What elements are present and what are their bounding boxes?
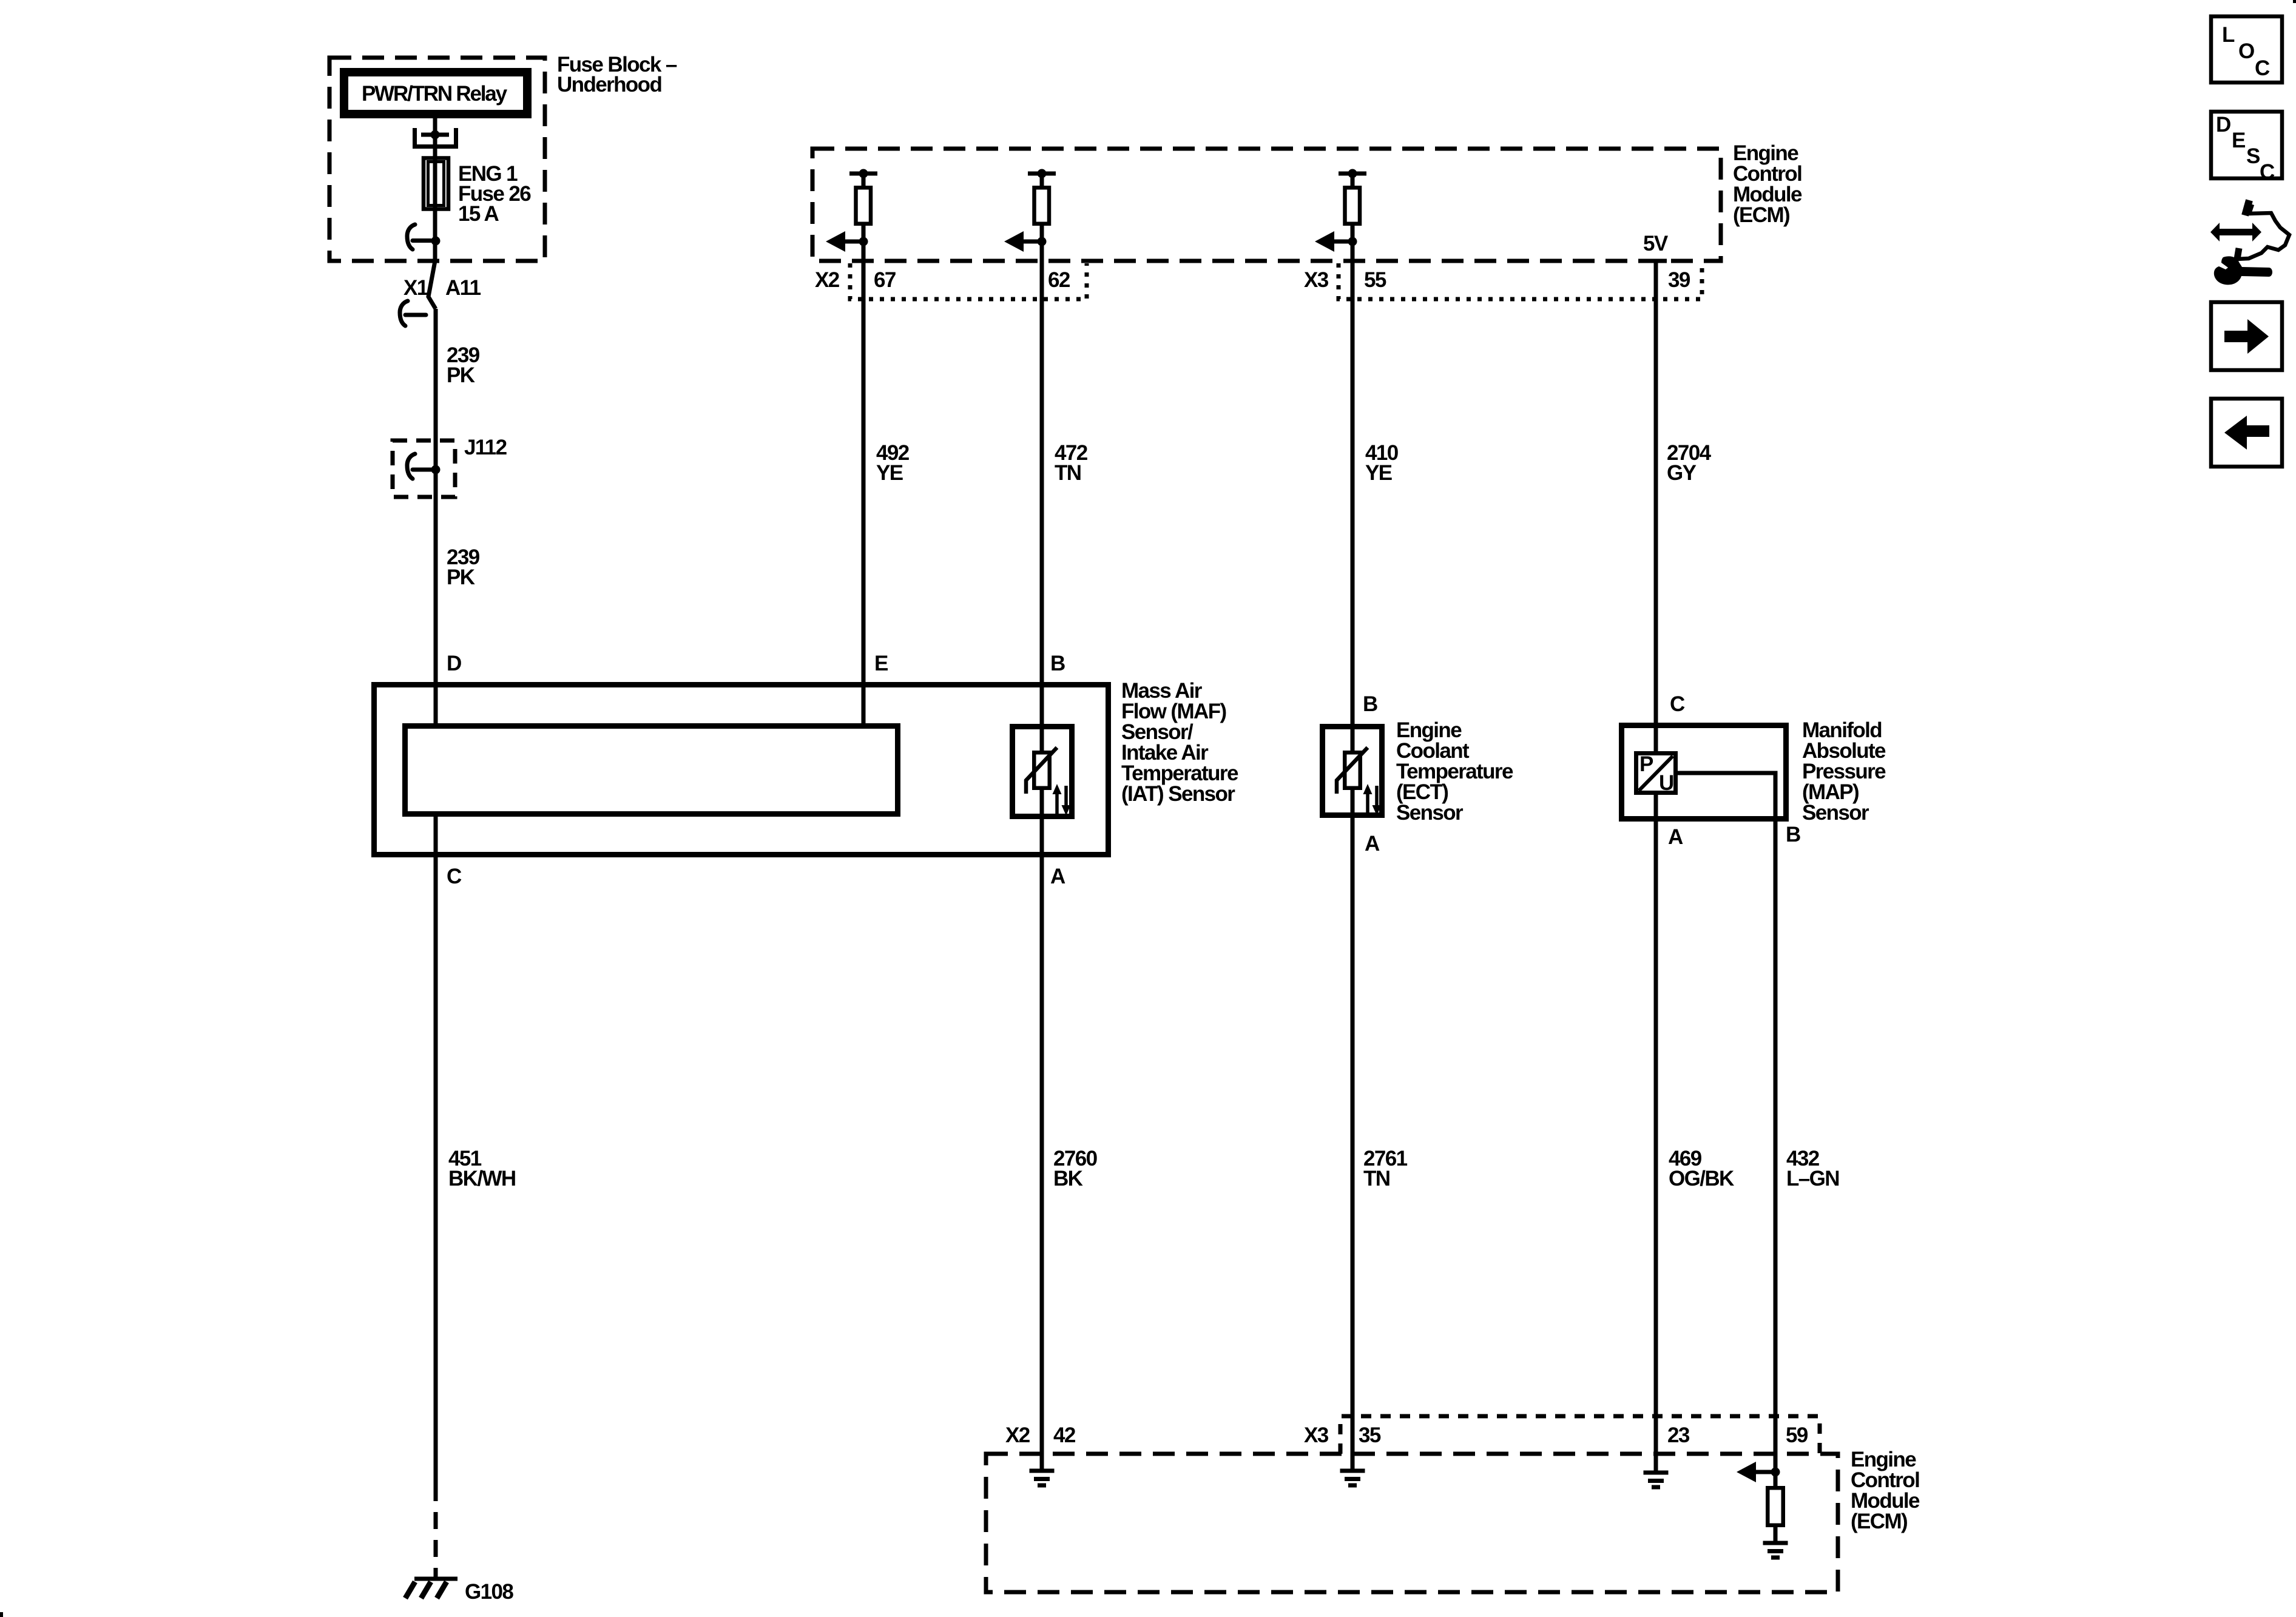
wire W4: 410 YE / 2761 TN from ECM 55 through ECT to ECM 35 bbox=[1351, 174, 1355, 1471]
svg-text:(IAT) Sensor: (IAT) Sensor bbox=[1121, 782, 1235, 806]
svg-text:67: 67 bbox=[874, 268, 896, 292]
svg-text:C: C bbox=[2260, 160, 2275, 184]
wire W1 kink through connector X1/A11 bbox=[428, 261, 436, 309]
svg-text:35: 35 bbox=[1359, 1423, 1381, 1447]
relay switch contact hook bbox=[407, 224, 431, 249]
svg-text:S: S bbox=[2246, 144, 2260, 168]
svg-text:A: A bbox=[1365, 832, 1380, 856]
MAP sensor box bbox=[1622, 726, 1786, 819]
icon DESC box bbox=[2211, 112, 2282, 184]
svg-text:B: B bbox=[1786, 823, 1800, 846]
wire W2: 492 YE from ECM 67 to MAF pin E bbox=[862, 174, 866, 723]
svg-text:23: 23 bbox=[1667, 1423, 1690, 1447]
svg-text:X3: X3 bbox=[1304, 1423, 1329, 1447]
svg-text:G108: G108 bbox=[465, 1580, 513, 1604]
fuse F26 (ENG 1, 15 A) bbox=[424, 158, 448, 209]
svg-text:BK: BK bbox=[1053, 1167, 1083, 1190]
svg-text:B: B bbox=[1050, 652, 1065, 675]
ground at ECM pin 23 bbox=[1644, 1473, 1669, 1487]
ground G108 chassis symbol bbox=[405, 1579, 458, 1598]
svg-text:O: O bbox=[2238, 39, 2255, 63]
wire W1: dashed continuation to G108 bbox=[434, 1512, 438, 1579]
ECM top dashed box bbox=[812, 149, 1721, 261]
wire W6: 432 L-GN from MAP pin B to ECM 59 bbox=[1678, 773, 1775, 1543]
connector X3 dotted box pins 55 39 bbox=[1339, 263, 1702, 299]
dash bar at 5V wire origin bbox=[1646, 259, 1667, 263]
svg-text:E: E bbox=[2232, 129, 2246, 152]
svg-text:E: E bbox=[874, 652, 888, 675]
ECM bottom dashed box bbox=[986, 1454, 1838, 1592]
svg-text:A: A bbox=[1668, 825, 1683, 849]
relay contact bracket bbox=[413, 128, 458, 148]
svg-text:A11: A11 bbox=[445, 276, 481, 300]
splice J112 junction dot bbox=[431, 465, 441, 474]
svg-text:62: 62 bbox=[1048, 268, 1070, 292]
svg-text:PK: PK bbox=[447, 565, 475, 589]
thermistor RT2 (ECT) bbox=[1337, 748, 1382, 815]
svg-text:YE: YE bbox=[876, 461, 903, 485]
svg-text:15 A: 15 A bbox=[458, 202, 499, 226]
thermistor RT1 (IAT) bbox=[1026, 748, 1071, 815]
svg-text:L: L bbox=[2222, 23, 2235, 47]
svg-text:Sensor: Sensor bbox=[1396, 801, 1464, 825]
resistor R (ECM internal at 59) bbox=[1768, 1488, 1783, 1525]
svg-text:PWR/TRN Relay: PWR/TRN Relay bbox=[362, 82, 508, 106]
svg-text:A: A bbox=[1050, 865, 1065, 888]
junction dot at pin 59 bbox=[1771, 1468, 1780, 1477]
svg-text:TN: TN bbox=[1363, 1167, 1389, 1190]
arrow at pin 59 bbox=[1737, 1462, 1775, 1482]
connector X3 dotted box pins 35 23 59 bbox=[1340, 1416, 1820, 1454]
svg-text:P: P bbox=[1639, 752, 1653, 776]
junction dot on relay output bbox=[431, 130, 440, 140]
svg-text:PK: PK bbox=[447, 363, 475, 387]
connector X1 terminal hook bbox=[400, 301, 426, 326]
IAT sensor box bbox=[1013, 727, 1072, 817]
MAP transducer P/U symbol bbox=[1636, 752, 1676, 795]
splice J112 dashed box bbox=[393, 441, 455, 497]
icon hand with double arrow and wrench bbox=[2210, 200, 2289, 285]
icon back arrow box bbox=[2211, 399, 2282, 467]
svg-text:TN: TN bbox=[1055, 461, 1081, 485]
page corner mark top right bbox=[2293, 0, 2296, 3]
svg-text:B: B bbox=[1363, 692, 1377, 716]
svg-text:OG/BK: OG/BK bbox=[1669, 1167, 1734, 1190]
junction dot at relay switch bbox=[431, 237, 441, 246]
svg-text:(ECM): (ECM) bbox=[1851, 1510, 1907, 1533]
svg-text:L–GN: L–GN bbox=[1786, 1167, 1839, 1190]
svg-text:X3: X3 bbox=[1304, 268, 1329, 292]
svg-text:GY: GY bbox=[1667, 461, 1697, 485]
svg-text:BK/WH: BK/WH bbox=[448, 1167, 516, 1190]
wire W1: relay output through fuse to X1/A11 bbox=[433, 118, 437, 261]
svg-text:J112: J112 bbox=[464, 436, 507, 459]
svg-text:YE: YE bbox=[1365, 461, 1392, 485]
svg-text:Underhood: Underhood bbox=[557, 73, 661, 96]
svg-text:D: D bbox=[2216, 113, 2231, 137]
svg-text:39: 39 bbox=[1668, 268, 1690, 292]
ECT sensor box bbox=[1323, 727, 1382, 815]
splice J112 terminal hook bbox=[407, 454, 432, 479]
fuse block underhood dashed box bbox=[329, 58, 545, 261]
svg-text:C: C bbox=[2255, 56, 2270, 80]
wire W3: 472 TN / 2760 BK from ECM 62 through IAT to ECM 42 bbox=[1040, 174, 1044, 1471]
connector X2 dotted box pins 67 62 bbox=[850, 263, 1087, 299]
svg-text:59: 59 bbox=[1786, 1423, 1808, 1447]
wire W5: 2704 GY / 469 OG/BK from ECM 5V through MAP to ECM 23 bbox=[1654, 261, 1658, 1473]
svg-text:X2: X2 bbox=[815, 268, 840, 292]
svg-text:42: 42 bbox=[1053, 1423, 1076, 1447]
svg-text:C: C bbox=[447, 865, 462, 888]
ground at ECM pin 42 bbox=[1030, 1471, 1055, 1485]
resistor pull-up at ECM 55 bbox=[1315, 169, 1366, 252]
ground at ECM resistor bbox=[1763, 1543, 1788, 1558]
resistor pull-up at ECM 67 bbox=[826, 169, 877, 252]
svg-text:X1: X1 bbox=[403, 276, 428, 300]
svg-text:5V: 5V bbox=[1643, 232, 1669, 255]
icon LOC box bbox=[2211, 16, 2282, 83]
relay K (PWR/TRN Relay) bold box bbox=[344, 72, 527, 114]
resistor pull-up at ECM 62 bbox=[1004, 169, 1056, 252]
svg-text:U: U bbox=[1659, 771, 1673, 795]
ground at ECM pin 35 bbox=[1340, 1471, 1365, 1485]
svg-text:D: D bbox=[447, 652, 461, 675]
svg-text:C: C bbox=[1670, 692, 1685, 716]
svg-text:X2: X2 bbox=[1005, 1423, 1030, 1447]
MAF sensor inner box bbox=[405, 726, 898, 814]
page corner mark bottom left bbox=[0, 1612, 3, 1617]
svg-text:Sensor: Sensor bbox=[1802, 801, 1869, 825]
svg-text:(ECM): (ECM) bbox=[1733, 203, 1789, 227]
wire W1: 451 BK/WH from MAF pin C down bbox=[434, 817, 438, 1501]
icon forward arrow box bbox=[2211, 302, 2282, 370]
wire W1: 239 PK down to MAF pin D bbox=[434, 309, 438, 723]
MAF/IAT sensor outer box bbox=[374, 685, 1109, 855]
svg-text:55: 55 bbox=[1364, 268, 1386, 292]
